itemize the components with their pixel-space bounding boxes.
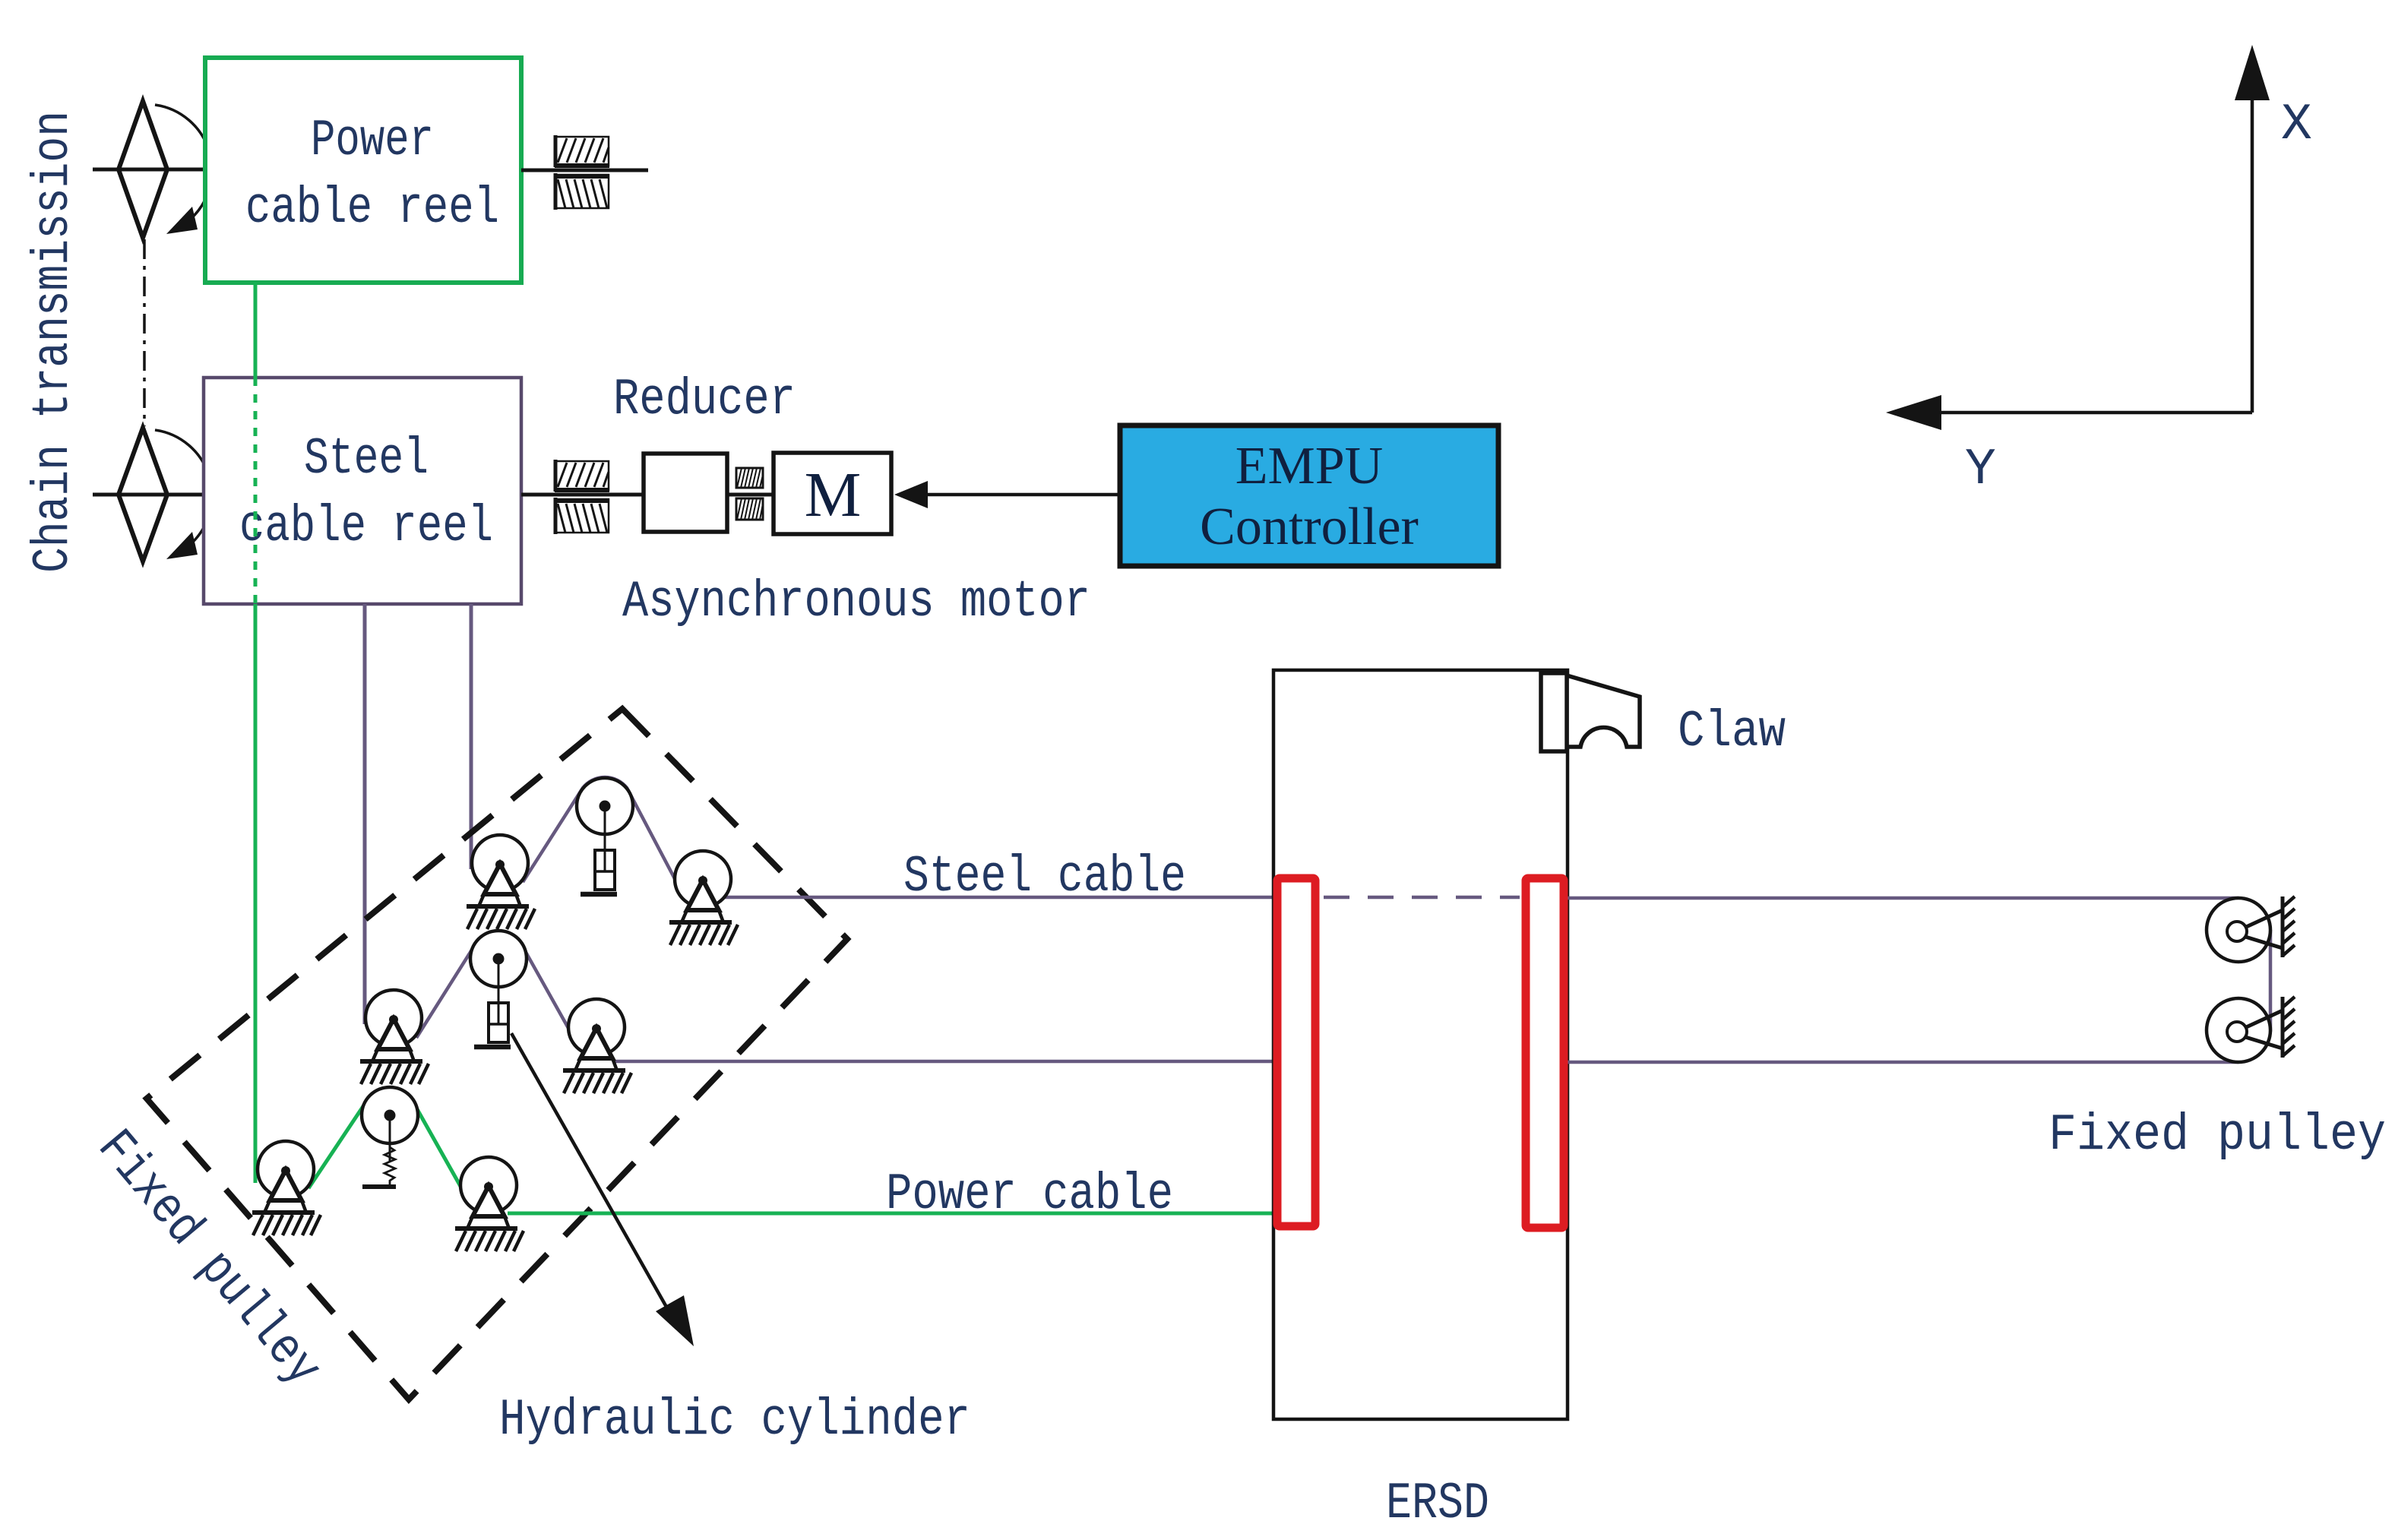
- coordinate axis X: [2251, 97, 2254, 413]
- svg-text:Y: Y: [1965, 441, 1996, 499]
- svg-text:Steel: Steel: [304, 430, 429, 489]
- sprocket diamond 1 (power reel chain wheel): [93, 101, 212, 238]
- pulley A2 grounded: [360, 990, 429, 1084]
- steel cable vertical line 1 from steel reel: [363, 604, 367, 1024]
- power cable vertical green line to pulley block: [254, 604, 258, 1183]
- fixed pulley right bottom: [2207, 997, 2295, 1062]
- power reel shaft to bearing: [521, 169, 648, 172]
- svg-text:Asynchronous motor: Asynchronous motor: [622, 573, 1090, 631]
- hydraulic cylinder under B2: [474, 1003, 511, 1047]
- reducer box: [644, 454, 727, 532]
- coupling hatched blocks: [736, 468, 763, 520]
- pulley C1 grounded: [669, 851, 738, 945]
- EMPU Controller box: [1120, 425, 1498, 566]
- steel cable vertical between right pulleys: [2269, 930, 2273, 1032]
- svg-text:Fixed pulley: Fixed pulley: [2049, 1106, 2386, 1165]
- steel cable 1 right of ERSD to fixed pulleys: [1568, 896, 2238, 900]
- hydraulic cylinder pointer arrow: [511, 1033, 673, 1319]
- svg-text:M: M: [805, 460, 862, 530]
- svg-text:cable reel: cable reel: [245, 179, 499, 238]
- pulley C3 grounded: [455, 1157, 524, 1251]
- hydraulic cylinder under B1: [581, 850, 617, 894]
- Steel cable reel box: [204, 378, 521, 604]
- steel cable 1 over pulley row 1: [523, 777, 1273, 897]
- ERSD body: [1273, 670, 1568, 1419]
- pulley C2 grounded: [563, 999, 631, 1093]
- power reel bearing: [555, 135, 609, 210]
- red guide bracket left: [1277, 878, 1315, 1226]
- pulley A3 grounded: [252, 1141, 321, 1235]
- svg-text:Claw: Claw: [1678, 703, 1786, 761]
- svg-text:cable reel: cable reel: [239, 498, 493, 556]
- fixed pulley right top: [2207, 896, 2295, 962]
- shaft of diamond 1: [93, 168, 205, 172]
- pulley B2 hanging: [470, 931, 527, 1004]
- svg-text:EMPU: EMPU: [1235, 437, 1383, 495]
- red guide bracket right: [1526, 878, 1564, 1228]
- steel cable dashed inside ERSD: [1324, 896, 1520, 900]
- shaft reducer to motor: [727, 493, 774, 497]
- steel cable vertical line 2 from steel reel: [470, 604, 473, 869]
- claw bracket: [1567, 675, 1640, 747]
- svg-text:Chain transmission: Chain transmission: [24, 111, 83, 573]
- svg-text:X: X: [2281, 96, 2312, 154]
- motor box M: [774, 453, 891, 534]
- svg-text:Reducer: Reducer: [613, 371, 796, 429]
- svg-text:Controller: Controller: [1200, 498, 1419, 556]
- coordinate axis Y: [1939, 411, 2252, 415]
- svg-text:Steel cable: Steel cable: [903, 848, 1186, 906]
- chain dash-dot link between sprockets: [143, 239, 146, 426]
- pulley B3 hanging: [362, 1087, 418, 1161]
- shaft of diamond 2: [93, 493, 205, 497]
- Power cable reel box: [205, 58, 521, 283]
- control signal arrow EMPU to motor: [922, 493, 1120, 497]
- steel reel bearing: [555, 460, 609, 534]
- svg-text:Power: Power: [311, 112, 434, 170]
- spring under B3: [362, 1121, 396, 1187]
- steel cable 2 over pulley row 2: [416, 931, 1273, 1061]
- steel reel shaft to bearing: [521, 493, 645, 497]
- pulley B1 hanging: [577, 778, 633, 852]
- rotation arc arrow 2: [155, 430, 212, 545]
- rotation arc arrow 1: [155, 105, 212, 220]
- power cable over pulley row 3: [308, 1088, 1273, 1213]
- power cable dashed through steel reel box: [254, 378, 258, 604]
- pulley A1 grounded: [467, 835, 535, 929]
- svg-text:ERSD: ERSD: [1386, 1475, 1489, 1533]
- power cable vertical green line from power reel: [254, 283, 258, 378]
- svg-text:Power cable: Power cable: [886, 1165, 1173, 1224]
- steel cable 2 right of ERSD to fixed pulleys: [1568, 1061, 2238, 1064]
- claw post rectangle: [1541, 673, 1567, 751]
- dashed enclosure of pulley block: [147, 709, 847, 1399]
- svg-text:Hydraulic cylinder: Hydraulic cylinder: [499, 1391, 970, 1450]
- sprocket diamond 2 (steel reel chain wheel): [93, 428, 212, 561]
